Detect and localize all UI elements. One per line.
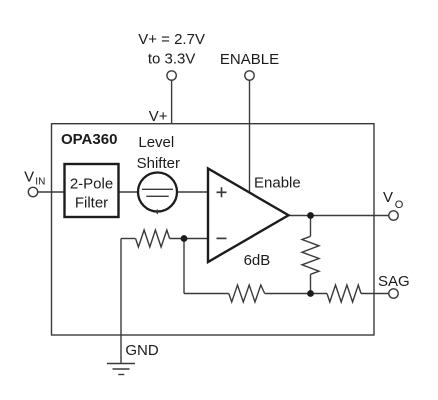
svg-text:OPA360: OPA360 [61,131,117,148]
svg-text:6dB: 6dB [244,252,271,269]
svg-text:GND: GND [125,342,158,359]
svg-text:V: V [24,169,34,186]
svg-text:SAG: SAG [378,273,410,290]
svg-text:ENABLE: ENABLE [220,51,279,68]
svg-text:Filter: Filter [75,195,108,212]
svg-text:V+ = 2.7V: V+ = 2.7V [138,31,205,48]
svg-text:to 3.3V: to 3.3V [148,51,196,68]
svg-text:Shifter: Shifter [137,155,180,172]
svg-text:Level: Level [138,134,174,151]
svg-text:IN: IN [35,177,45,188]
svg-text:Enable: Enable [254,175,301,192]
svg-text:2-Pole: 2-Pole [70,176,113,193]
svg-text:O: O [395,199,404,211]
svg-text:V+: V+ [149,108,168,125]
svg-text:V: V [383,189,393,206]
